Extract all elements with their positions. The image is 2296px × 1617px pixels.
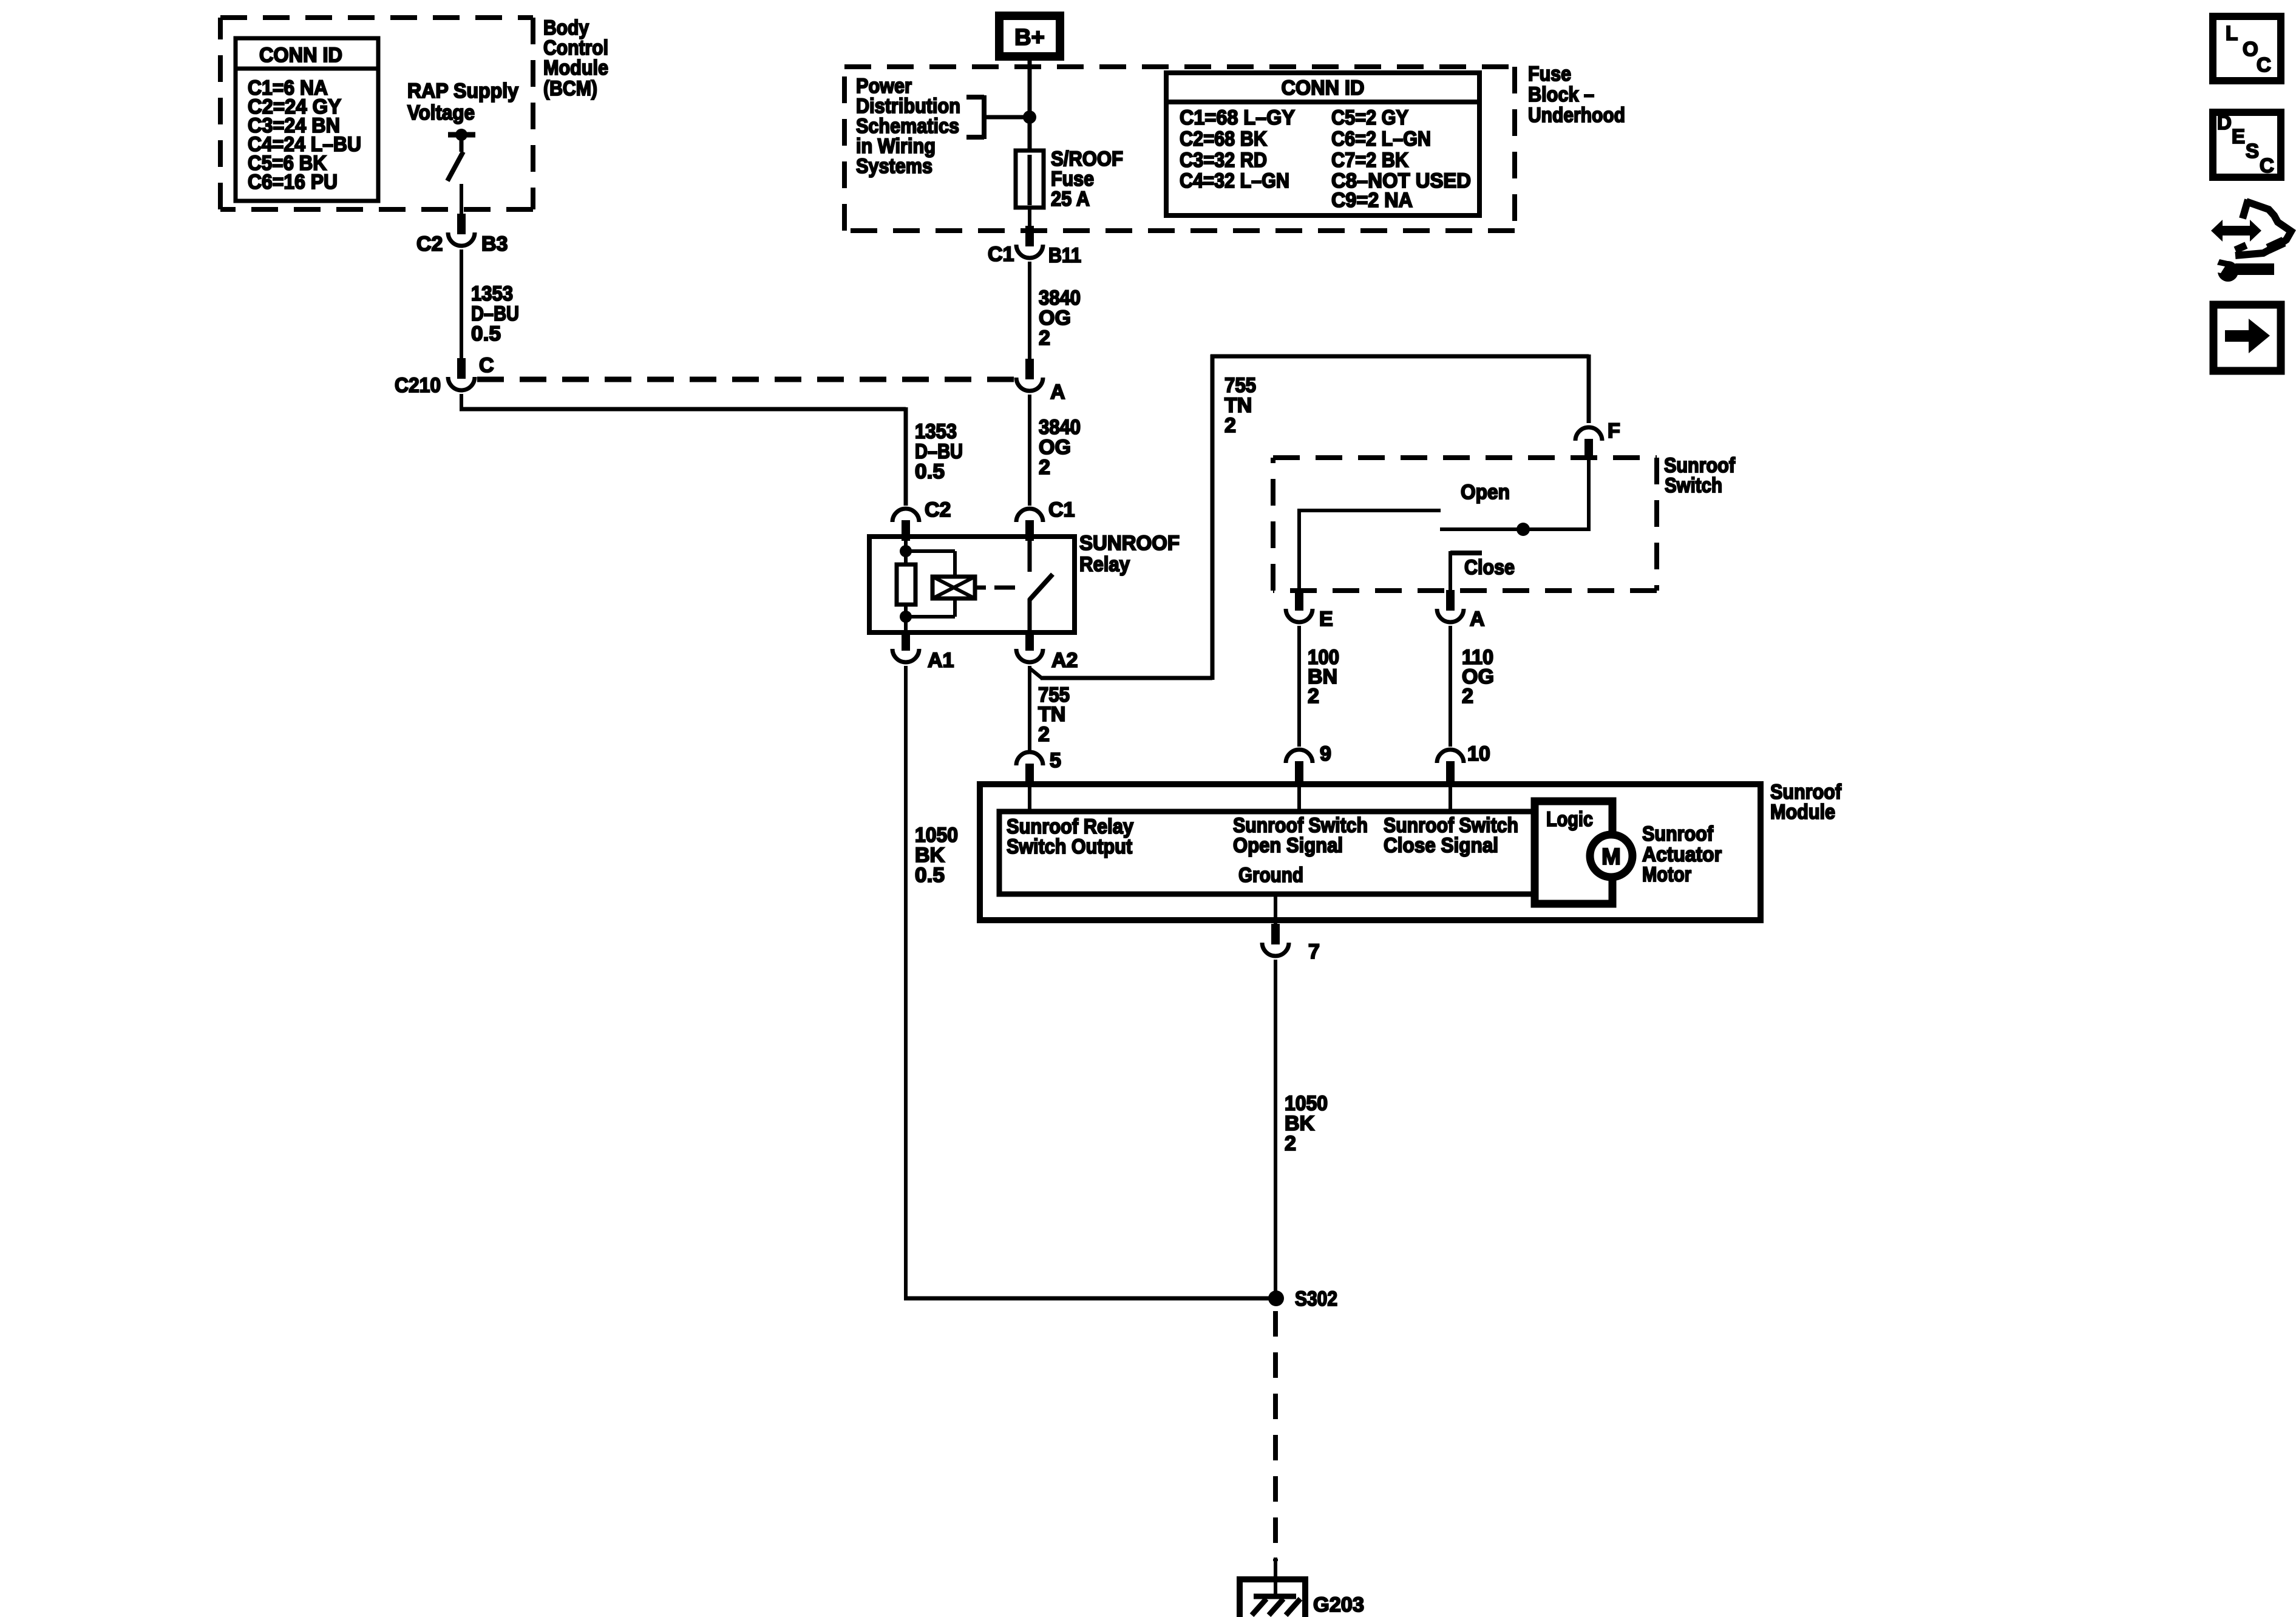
svg-text:A: A [1050, 381, 1065, 404]
ground symbol G203 [1237, 1576, 1306, 1582]
svg-text:Voltage: Voltage [407, 101, 475, 124]
svg-text:2: 2 [1039, 327, 1050, 350]
open contact line [1298, 509, 1441, 512]
svg-text:Open Signal: Open Signal [1233, 834, 1343, 857]
svg-text:C210: C210 [395, 374, 441, 397]
arrow icon box [2213, 305, 2281, 371]
svg-text:Module: Module [1770, 801, 1835, 824]
svg-text:C: C [479, 354, 494, 377]
connector A1 [902, 630, 910, 651]
wire 1353 D-BU 0.5 (BCM to C210) [460, 249, 463, 359]
sunroof module box [980, 784, 1761, 920]
wire 3840 OG 2 (A to relay C1) [1028, 395, 1031, 506]
svg-text:Close: Close [1464, 556, 1515, 579]
svg-text:Sunroof: Sunroof [1642, 822, 1714, 846]
wire B+ down to fuse [1028, 56, 1032, 152]
svg-text:C2: C2 [925, 498, 951, 521]
svg-text:CONN ID: CONN ID [259, 44, 342, 67]
svg-text:2: 2 [1224, 414, 1236, 437]
svg-text:L: L [2226, 22, 2238, 44]
connector C210 / C [457, 358, 466, 379]
junction dot power distribution tap [1023, 110, 1036, 124]
relay switch output wire [1028, 598, 1032, 632]
svg-text:C4=32 L–GN: C4=32 L–GN [1180, 169, 1289, 192]
svg-text:A1: A1 [928, 649, 954, 672]
connector C2 (relay coil) [902, 520, 910, 541]
svg-text:C6=16 PU: C6=16 PU [248, 171, 338, 194]
svg-text:0.5: 0.5 [915, 460, 945, 483]
svg-text:A2: A2 [1051, 649, 1078, 672]
svg-text:S302: S302 [1295, 1287, 1337, 1310]
wire F into switch [1587, 457, 1591, 529]
sunroof actuator motor M [1590, 835, 1632, 877]
relay resistor [897, 564, 915, 605]
wire A2 down to module pin 5 (755 TN 2) [1028, 666, 1031, 750]
wire BCM switch to connector C2/B3 [460, 184, 463, 215]
svg-text:C: C [2257, 53, 2271, 76]
junction dot relay top [900, 545, 912, 557]
svg-text:Systems: Systems [856, 155, 932, 178]
svg-text:Open: Open [1461, 481, 1510, 504]
connector A (sunroof switch) [1446, 590, 1455, 611]
relay coil branch wire [904, 537, 908, 566]
relay coil actuator stub [975, 586, 986, 590]
svg-text:7: 7 [1308, 940, 1320, 963]
svg-text:C7=2 BK: C7=2 BK [1331, 149, 1408, 172]
module ground wire to pin 7 [1274, 894, 1277, 925]
module inner function box [999, 812, 1537, 894]
switch common line [1440, 527, 1591, 531]
svg-text:C1: C1 [988, 243, 1014, 266]
module pin 10 connector [1446, 761, 1455, 782]
svg-text:E: E [2232, 125, 2245, 147]
svg-text:B11: B11 [1048, 244, 1081, 267]
wire down to relay C2 [904, 407, 908, 506]
svg-text:(BCM): (BCM) [543, 77, 597, 100]
sunroof switch dashed box [1273, 455, 1657, 460]
wire 3840 OG 2 (fuse to A) [1028, 262, 1031, 360]
svg-text:G203: G203 [1313, 1593, 1364, 1616]
LOC icon box [2213, 16, 2281, 81]
wire A1 branch to S302 [904, 1297, 1276, 1301]
B+ power feed box [999, 16, 1060, 56]
svg-text:B3: B3 [481, 232, 508, 256]
wire fuse to connector C1/B11 [1028, 208, 1031, 227]
svg-text:Ground: Ground [1238, 864, 1303, 887]
svg-text:2: 2 [1039, 456, 1050, 479]
relay coil loop wires [906, 549, 955, 553]
svg-text:C1=68 L–GY: C1=68 L–GY [1180, 106, 1295, 129]
relay actuator dashed link [994, 586, 1015, 590]
svg-text:O: O [2243, 38, 2258, 60]
logic box [1535, 801, 1612, 904]
relay switch arm [1030, 574, 1053, 600]
svg-text:CONN ID: CONN ID [1282, 76, 1365, 100]
svg-text:Close Signal: Close Signal [1384, 834, 1498, 857]
svg-text:10: 10 [1467, 742, 1490, 765]
svg-text:25 A: 25 A [1051, 188, 1090, 211]
wire C210 down and right to relay column [460, 394, 463, 409]
DESC icon box [2213, 112, 2281, 177]
wire 110 OG 2 (A to pin 10) [1449, 626, 1452, 747]
svg-text:C5=2 GY: C5=2 GY [1331, 106, 1408, 129]
svg-text:A: A [1470, 608, 1485, 631]
module pin 9 connector [1295, 761, 1303, 782]
svg-text:C3=32 RD: C3=32 RD [1180, 149, 1267, 172]
connector C2/B3 (BCM) [457, 214, 466, 234]
RAP supply switch (inside BCM) [448, 132, 475, 138]
junction dot switch common [1517, 523, 1530, 536]
svg-text:RAP Supply: RAP Supply [407, 80, 518, 103]
svg-text:2: 2 [1038, 723, 1050, 746]
svg-text:Relay: Relay [1079, 553, 1130, 576]
svg-text:9: 9 [1320, 742, 1331, 765]
ground wire stub [1274, 1558, 1277, 1596]
svg-text:C2=68 BK: C2=68 BK [1180, 127, 1267, 151]
dashed wire S302 to ground [1273, 1311, 1278, 1561]
power distribution bracket [984, 115, 1030, 120]
svg-text:B+: B+ [1014, 25, 1045, 50]
relay coil (box with X) [932, 577, 975, 598]
svg-text:D: D [2217, 111, 2232, 134]
wire A2 to sunroof switch F (755 TN 2) [1028, 666, 1031, 670]
BCM CONN ID table [236, 38, 378, 201]
connector A2 [1025, 630, 1034, 651]
svg-text:5: 5 [1050, 749, 1061, 772]
svg-text:C2: C2 [416, 232, 443, 256]
svg-text:0.5: 0.5 [471, 322, 501, 345]
svg-text:C1: C1 [1048, 498, 1075, 521]
svg-text:Motor: Motor [1642, 863, 1691, 886]
fuse S/ROOF 25A [1028, 152, 1032, 208]
SUNROOF relay box [869, 537, 1075, 632]
svg-text:0.5: 0.5 [915, 864, 945, 887]
wire A1 down (1050 BK 0.5) [904, 666, 908, 1300]
svg-text:Underhood: Underhood [1528, 104, 1625, 127]
svg-text:Block –: Block – [1528, 83, 1594, 106]
svg-text:Module: Module [543, 56, 608, 80]
svg-text:Fuse: Fuse [1528, 63, 1571, 86]
svg-text:Switch: Switch [1665, 474, 1722, 497]
svg-text:E: E [1319, 608, 1333, 631]
fuse block underhood dashed box [844, 64, 1515, 69]
fuse block CONN ID table [1166, 73, 1479, 215]
svg-text:Logic: Logic [1546, 808, 1593, 831]
connector C1/B11 (fuse block) [1025, 226, 1034, 246]
splice S302 [1268, 1290, 1284, 1306]
svg-text:C9=2 NA: C9=2 NA [1331, 189, 1413, 212]
connector C1 (relay switch) [1025, 520, 1034, 541]
svg-text:2: 2 [1462, 685, 1473, 708]
close contact [1450, 551, 1482, 555]
module internal pin stubs [1028, 785, 1031, 813]
open contact wire to E [1297, 509, 1301, 592]
connector A (harness inline) [1025, 359, 1034, 379]
svg-text:S: S [2246, 140, 2259, 162]
Body Control Module (BCM) dashed box [220, 15, 533, 20]
svg-text:F: F [1608, 419, 1620, 442]
svg-text:2: 2 [1285, 1132, 1296, 1155]
dashed harness line C210 to A [477, 377, 1028, 382]
svg-text:M: M [1601, 844, 1621, 870]
adjust hand and wrench icon [2243, 200, 2248, 219]
connector E [1295, 590, 1303, 611]
svg-text:C: C [2260, 154, 2274, 177]
wire 100 BN 2 (E to pin 9) [1297, 626, 1301, 747]
svg-text:SUNROOF: SUNROOF [1079, 532, 1180, 555]
module pin 7 connector [1271, 924, 1280, 944]
wire pin 7 down (1050 BK 2) [1274, 960, 1277, 1298]
svg-text:2: 2 [1308, 685, 1319, 708]
svg-text:C6=2 L–GN: C6=2 L–GN [1331, 127, 1431, 151]
svg-text:Switch Output: Switch Output [1007, 835, 1132, 858]
module pin 5 connector [1025, 764, 1034, 784]
junction dot relay bottom [900, 611, 912, 623]
connector F [1584, 439, 1593, 459]
relay switch fixed contact [1028, 537, 1032, 572]
